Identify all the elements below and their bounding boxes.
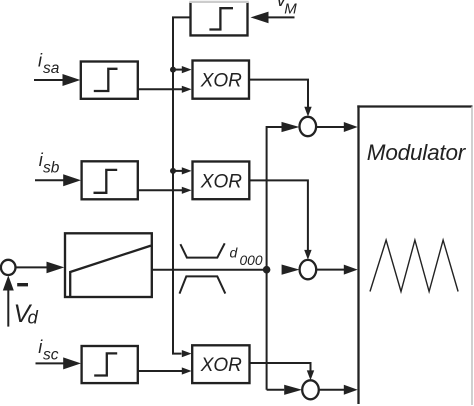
svg-text:d: d xyxy=(28,307,39,328)
svg-text:XOR: XOR xyxy=(200,171,242,192)
svg-text:M: M xyxy=(284,0,297,17)
svg-text:sc: sc xyxy=(43,346,59,363)
svg-text:XOR: XOR xyxy=(200,355,242,376)
svg-text:sa: sa xyxy=(43,60,60,77)
svg-text:sb: sb xyxy=(43,160,60,177)
svg-text:d: d xyxy=(230,245,239,261)
svg-text:Modulator: Modulator xyxy=(367,140,467,165)
svg-text:XOR: XOR xyxy=(200,71,242,92)
svg-text:000: 000 xyxy=(240,253,263,268)
